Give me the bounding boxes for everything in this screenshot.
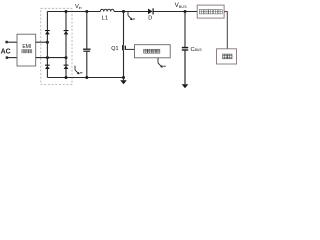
diode bridge lower-left — [45, 65, 50, 69]
dashed enclosure around bridge rectifier — [41, 8, 72, 84]
ground main — [123, 78, 125, 81]
svg-text:L1: L1 — [102, 15, 108, 21]
rear-stage converter box — [197, 5, 224, 18]
ground CBUS — [182, 84, 189, 88]
label 滤波器 — [22, 50, 25, 53]
node Cin bottom — [85, 76, 88, 79]
diode bridge lower-right — [64, 65, 69, 69]
capacitor Cin — [83, 48, 91, 50]
diode bridge upper-left — [45, 30, 50, 34]
wire Q1 gate — [126, 48, 135, 50]
wire bridge left branch — [46, 12, 48, 78]
wire EMI lower output to bridge right branch — [36, 57, 66, 59]
svg-text:D: D — [148, 16, 152, 22]
svg-text:AC: AC — [1, 49, 11, 56]
svg-text:VBUS: VBUS — [175, 2, 188, 9]
transistor Q1 source — [123, 50, 125, 77]
transistor Q1 drain — [123, 12, 125, 46]
wire Cin branch — [86, 12, 88, 49]
wire converter to load — [224, 12, 227, 49]
node AC1 on left branch — [46, 41, 49, 44]
AC terminal upper — [5, 41, 8, 44]
load box — [217, 49, 237, 64]
label 控制电路 — [144, 49, 148, 53]
sense arrow below control box — [158, 58, 166, 67]
label 负载 — [223, 54, 227, 59]
node Q1 source bottom — [122, 76, 125, 79]
inductor L1 — [100, 9, 114, 11]
wire EMI upper output to bridge left branch — [36, 41, 48, 43]
EMI filter box — [17, 34, 36, 66]
node Q1 drain top — [122, 10, 125, 13]
svg-text:CBUS: CBUS — [191, 47, 203, 53]
svg-text:Vin: Vin — [75, 4, 82, 10]
capacitor CBUS — [182, 47, 188, 49]
node VBUS — [184, 10, 187, 13]
wire AC lower to EMI — [8, 57, 17, 59]
AC terminal lower — [6, 56, 9, 59]
node crossing on left branch — [46, 56, 49, 59]
wire bottom rail — [47, 77, 123, 79]
node right branch top — [65, 10, 68, 13]
node Cin top — [85, 10, 88, 13]
diode bridge upper-right — [64, 30, 69, 34]
diode D — [148, 9, 153, 15]
svg-text:EMI: EMI — [22, 44, 31, 50]
wire VBUS down to CBUS — [184, 12, 186, 48]
wire CBUS to ground — [184, 51, 186, 85]
sense arrow at input rail — [75, 66, 82, 74]
label 后级变换器 — [199, 10, 203, 14]
node right branch bottom — [65, 76, 68, 79]
svg-text:Q1: Q1 — [111, 46, 118, 52]
wire AC upper to EMI — [8, 41, 17, 43]
control circuit box — [135, 45, 171, 58]
wire bridge right branch — [65, 12, 67, 78]
wire top rail — [47, 11, 197, 13]
transistor Q1 body — [122, 45, 124, 50]
sense arrow at switch node — [128, 12, 135, 19]
node AC2 on right branch — [65, 56, 68, 59]
